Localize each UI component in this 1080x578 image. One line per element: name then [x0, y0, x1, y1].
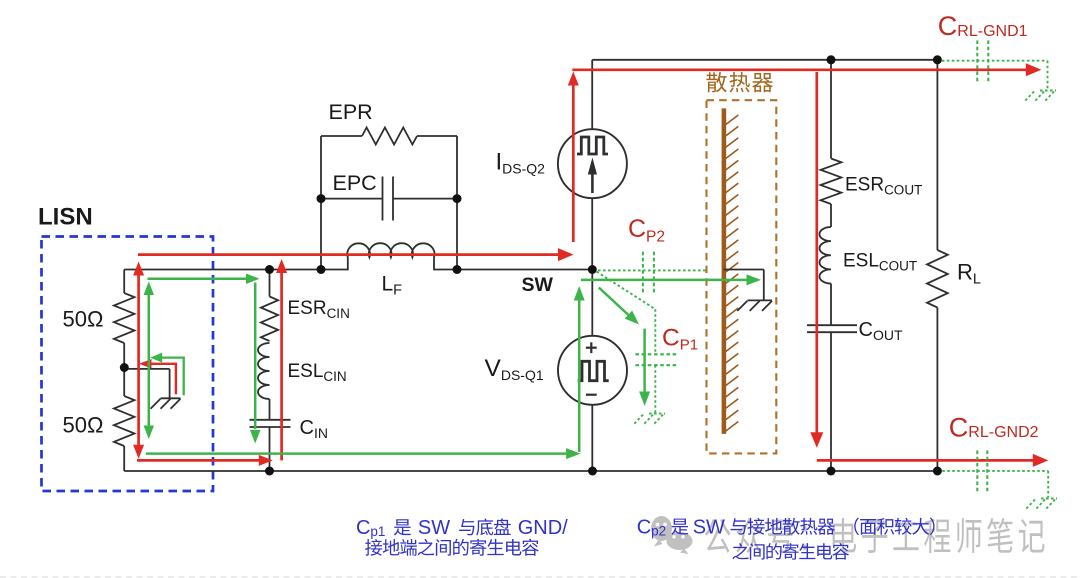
svg-text:EPC: EPC	[333, 171, 377, 195]
svg-text:SW: SW	[418, 517, 450, 539]
svg-text:CIN: CIN	[323, 369, 346, 384]
svg-text:C: C	[859, 319, 873, 341]
svg-text:p2: p2	[651, 523, 666, 538]
svg-text:CIN: CIN	[327, 306, 350, 321]
svg-text:P2: P2	[646, 228, 665, 245]
svg-text:COUT: COUT	[879, 258, 917, 273]
svg-text:DS-Q1: DS-Q1	[501, 367, 544, 383]
svg-text:C: C	[628, 215, 646, 243]
svg-text:P1: P1	[680, 337, 698, 354]
svg-text:DS-Q2: DS-Q2	[502, 160, 545, 176]
svg-text:C: C	[300, 417, 314, 439]
svg-text:SW: SW	[693, 516, 725, 538]
svg-text:C: C	[949, 413, 969, 443]
svg-text:ESR: ESR	[845, 175, 884, 196]
svg-text:C: C	[637, 516, 651, 538]
svg-text:C: C	[938, 11, 958, 41]
svg-text:V: V	[485, 355, 502, 382]
svg-text:R: R	[957, 260, 973, 285]
svg-text:50Ω: 50Ω	[63, 413, 104, 438]
svg-text:C: C	[356, 517, 370, 539]
svg-text:I: I	[496, 149, 503, 176]
svg-text:ESR: ESR	[288, 298, 327, 319]
svg-text:50Ω: 50Ω	[63, 307, 104, 332]
svg-text:F: F	[393, 283, 402, 299]
svg-text:SW: SW	[522, 274, 554, 296]
svg-text:ESL: ESL	[843, 251, 879, 272]
svg-text:IN: IN	[314, 425, 328, 441]
svg-text:COUT: COUT	[884, 182, 922, 197]
svg-text:OUT: OUT	[873, 327, 903, 343]
svg-text:RL-GND1: RL-GND1	[957, 23, 1027, 40]
svg-text:C: C	[662, 324, 680, 351]
svg-text:LISN: LISN	[38, 204, 93, 231]
svg-text:p1: p1	[370, 524, 385, 539]
svg-text:EPR: EPR	[329, 100, 373, 124]
svg-text:RL-GND2: RL-GND2	[968, 424, 1038, 441]
svg-text:ESL: ESL	[288, 361, 324, 382]
svg-text:L: L	[382, 273, 394, 296]
svg-text:GND/: GND/	[518, 517, 568, 539]
svg-text:L: L	[973, 272, 981, 288]
